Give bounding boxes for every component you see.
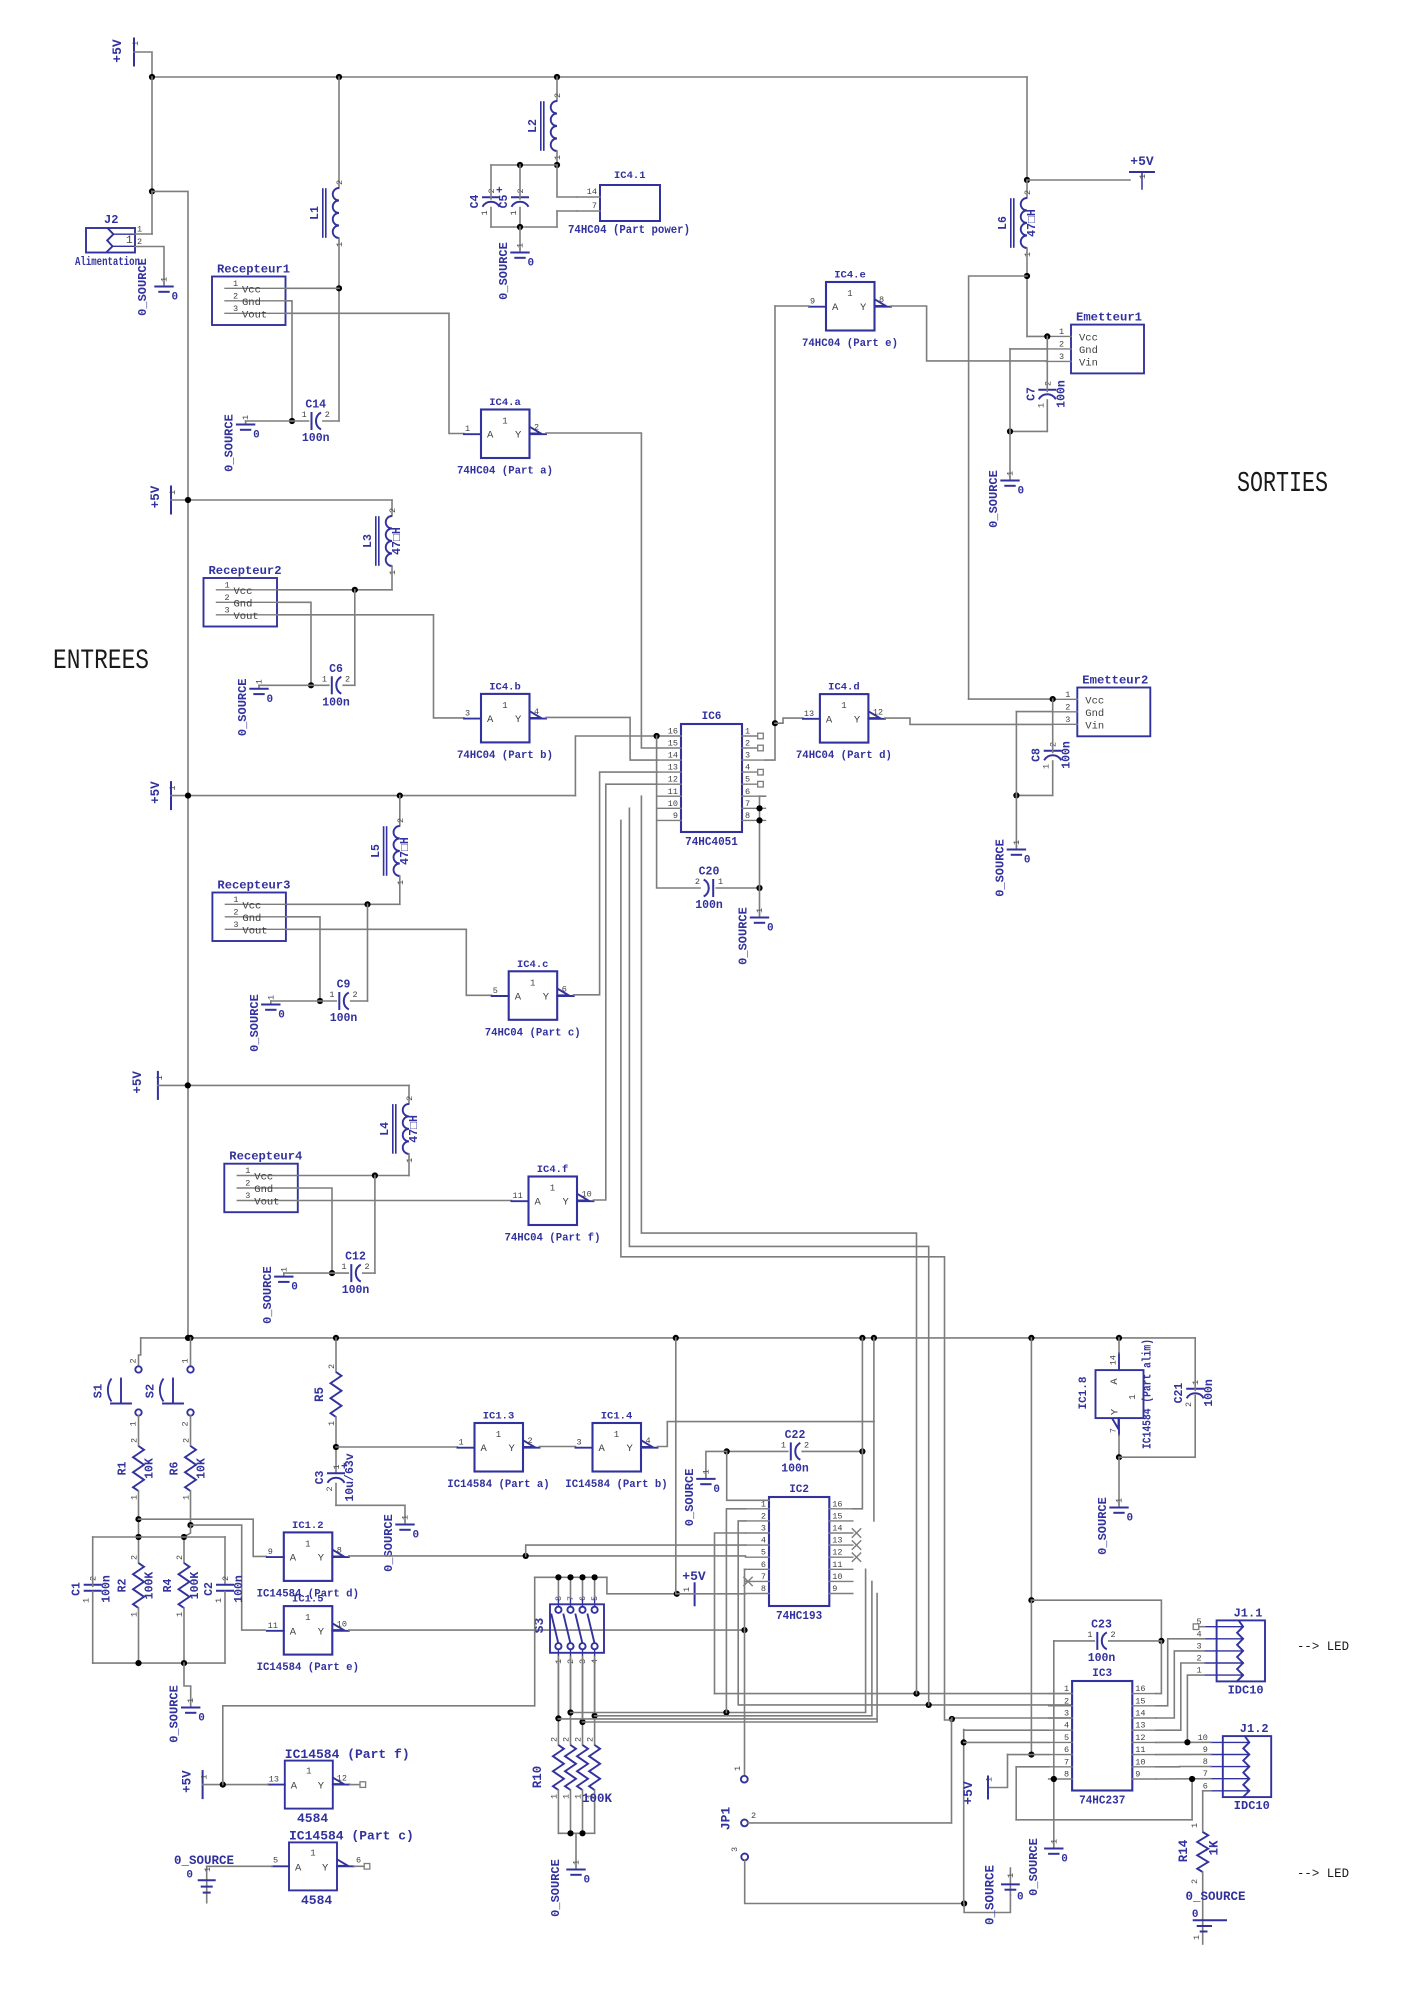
svg-text:0_SOURCE: 0_SOURCE xyxy=(236,678,250,736)
svg-text:3: 3 xyxy=(1059,352,1064,362)
junction rail/IC2p15 xyxy=(871,1335,877,1341)
svg-text:1: 1 xyxy=(405,1158,415,1163)
svg-text:13: 13 xyxy=(832,1536,842,1546)
junction S3 column xyxy=(592,1574,598,1580)
switch S2 xyxy=(187,1366,193,1372)
svg-text:IC1.3: IC1.3 xyxy=(483,1411,515,1423)
svg-text:13: 13 xyxy=(1135,1721,1145,1731)
svg-text:100n: 100n xyxy=(1061,741,1074,769)
wire Recepteur4 Gnd down xyxy=(298,1188,332,1273)
svg-text:1: 1 xyxy=(1087,1630,1092,1640)
wire Recepteur2 Gnd down xyxy=(277,602,311,685)
wire L4 to Recepteur4 Vcc xyxy=(298,1175,409,1177)
svg-text:12: 12 xyxy=(873,707,883,717)
svg-text:A: A xyxy=(826,714,833,726)
svg-text:1: 1 xyxy=(682,1587,692,1592)
ground 0_SOURCE (C4/C5) xyxy=(519,249,521,252)
wire J2 pin1 xyxy=(135,233,152,235)
svg-text:5: 5 xyxy=(761,1548,766,1558)
wire S3 col1 down xyxy=(557,1659,559,1718)
svg-text:11: 11 xyxy=(832,1560,842,1570)
svg-text:J1.2: J1.2 xyxy=(1240,1722,1269,1736)
svg-text:Alimentation: Alimentation xyxy=(75,255,140,269)
wire ground to Part c input xyxy=(207,1865,272,1867)
svg-text:1: 1 xyxy=(459,1438,464,1448)
wire IC3 pin7 down xyxy=(1015,1767,1017,1820)
svg-text:C7: C7 xyxy=(1025,387,1038,401)
svg-text:2: 2 xyxy=(353,990,358,1000)
svg-text:Vout: Vout xyxy=(254,1197,279,1209)
wire IC4.f output to IC6 pin12 xyxy=(594,784,658,1200)
svg-text:8: 8 xyxy=(337,1546,342,1556)
svg-text:0_SOURCE: 0_SOURCE xyxy=(1186,1890,1246,1904)
svg-text:8: 8 xyxy=(1203,1757,1208,1767)
junction C22/+5V xyxy=(859,1448,865,1454)
svg-text:2: 2 xyxy=(325,1486,335,1491)
svg-text:2: 2 xyxy=(1065,702,1070,712)
svg-text:0_SOURCE: 0_SOURCE xyxy=(987,470,1001,528)
wire C4 bottom xyxy=(490,208,492,228)
wire to ground (C8) xyxy=(1015,795,1017,846)
IC IC3 xyxy=(1072,1681,1132,1791)
capacitor C7 xyxy=(1039,389,1055,391)
svg-text:1: 1 xyxy=(496,1430,501,1440)
junction S3 column xyxy=(567,1574,573,1580)
wire C9 pin2 xyxy=(351,1000,368,1002)
svg-text:1: 1 xyxy=(1006,471,1016,476)
junction IC1.2 out branch xyxy=(523,1553,529,1559)
svg-text:2: 2 xyxy=(325,410,330,420)
svg-text:1: 1 xyxy=(509,210,519,215)
wire C1/C2 top net xyxy=(93,1536,225,1538)
junction R4/C net xyxy=(181,1534,187,1540)
svg-text:16: 16 xyxy=(668,727,678,737)
svg-text:L4: L4 xyxy=(379,1122,392,1136)
wire col1 bus xyxy=(558,1718,877,1720)
svg-text:0: 0 xyxy=(186,1870,193,1882)
svg-text:1: 1 xyxy=(1012,840,1022,845)
wire down to J2 xyxy=(151,77,153,191)
svg-text:1: 1 xyxy=(1192,1935,1202,1940)
junction L6/+5V xyxy=(1024,177,1030,183)
junction J1.2 pin7 net xyxy=(1189,1776,1195,1782)
ground 0_SOURCE (C14) xyxy=(245,421,247,424)
no-connect Part f output xyxy=(360,1782,366,1788)
svg-text:0_SOURCE: 0_SOURCE xyxy=(549,1859,563,1917)
svg-text:2: 2 xyxy=(130,1555,140,1560)
junction col2/IC2 pin1 xyxy=(723,1709,729,1715)
svg-text:1: 1 xyxy=(305,1613,310,1623)
wire J1.2 pin7 net down xyxy=(1191,1779,1193,1820)
svg-text:IC4.a: IC4.a xyxy=(489,397,521,409)
capacitor C12 xyxy=(350,1265,352,1281)
capacitor C9 xyxy=(338,993,340,1009)
junction C5 top xyxy=(517,162,523,168)
junction Vcc/C8 xyxy=(1050,696,1056,702)
svg-text:R4: R4 xyxy=(162,1579,175,1593)
receiver module Recepteur4 xyxy=(224,1164,297,1213)
svg-text:IC6: IC6 xyxy=(702,711,722,723)
wire C3 bottom xyxy=(335,1484,337,1506)
wire down to IC2 pin15 xyxy=(873,1422,875,1521)
svg-text:1: 1 xyxy=(847,289,852,299)
svg-text:1: 1 xyxy=(186,1698,196,1703)
wire C4 top xyxy=(490,165,492,199)
svg-text:1: 1 xyxy=(401,1515,411,1520)
wire C6 pin1 xyxy=(311,684,329,686)
wire C12 pin1 xyxy=(332,1272,348,1274)
ground 0_SOURCE (C7) xyxy=(1009,477,1011,480)
junction C7/Gnd1 xyxy=(1007,428,1013,434)
junction R5/C3/IC1.3 xyxy=(333,1444,339,1450)
wire +5V row3 to IC6 pin16 xyxy=(575,736,657,796)
wire IC4.1 pin7 xyxy=(557,210,577,212)
svg-text:R5: R5 xyxy=(313,1387,327,1402)
svg-text:SORTIES: SORTIES xyxy=(1237,467,1328,500)
wire R6 node to IC1.5 input xyxy=(191,1525,266,1630)
svg-text:1: 1 xyxy=(225,580,230,590)
svg-text:9: 9 xyxy=(832,1584,837,1594)
svg-text:0: 0 xyxy=(584,1875,591,1887)
wire L2 to C4/C5 node xyxy=(556,151,558,165)
svg-text:Recepteur3: Recepteur3 xyxy=(217,879,290,893)
wire IC1.5 output xyxy=(349,1629,745,1631)
wire to IC1.3 input xyxy=(336,1446,458,1448)
svg-text:4584: 4584 xyxy=(301,1893,332,1908)
svg-text:L3: L3 xyxy=(362,534,375,548)
wire +5V to Part f input xyxy=(203,1784,268,1786)
svg-text:1: 1 xyxy=(329,990,334,1000)
svg-text:47□H: 47□H xyxy=(399,837,412,865)
wire S3 bus down to +5V branch xyxy=(534,1577,536,1706)
svg-text:0_SOURCE: 0_SOURCE xyxy=(174,1854,234,1868)
svg-text:2: 2 xyxy=(233,291,238,301)
svg-text:Vin: Vin xyxy=(1085,720,1104,732)
svg-text:IC14584 (Part alim): IC14584 (Part alim) xyxy=(1142,1339,1155,1449)
svg-text:2: 2 xyxy=(345,674,350,684)
wire IC2 pin3 down xyxy=(715,1533,746,1694)
svg-text:--> LED: --> LED xyxy=(1297,1639,1349,1654)
capacitor C14 xyxy=(311,413,313,429)
svg-text:3: 3 xyxy=(1065,715,1070,725)
svg-text:3: 3 xyxy=(1064,1709,1069,1719)
inverter IC1.2 xyxy=(284,1532,333,1581)
wire S3 col3 down xyxy=(582,1659,584,1722)
wire top +5V rail xyxy=(152,76,1027,78)
svg-text:16: 16 xyxy=(1135,1684,1145,1694)
svg-text:1: 1 xyxy=(203,1867,213,1872)
svg-text:C14: C14 xyxy=(305,399,326,412)
wire rail to C22 xyxy=(861,1338,863,1452)
svg-text:11: 11 xyxy=(1135,1745,1145,1755)
wire C23 pin2 xyxy=(1109,1640,1162,1642)
wire L3 down xyxy=(391,566,393,590)
svg-text:13: 13 xyxy=(269,1775,279,1785)
svg-text:Gnd: Gnd xyxy=(254,1184,273,1196)
junction R1/IC1.2 input xyxy=(135,1516,141,1522)
ground 0_SOURCE (IC3 area) xyxy=(1009,1868,1011,1895)
wire +5V row4 xyxy=(158,1084,409,1086)
IC IC2 xyxy=(769,1497,829,1606)
svg-text:100n: 100n xyxy=(322,696,350,709)
resistor R6 xyxy=(185,1446,196,1491)
wire +5V node to IC2 pin8 xyxy=(677,1593,746,1595)
ground 0_SOURCE (C20) xyxy=(759,914,761,917)
inverter IC1.5 xyxy=(284,1606,333,1655)
wire S3 to R10 xyxy=(582,1659,584,1745)
svg-text:1: 1 xyxy=(168,785,178,790)
svg-text:IC1.8: IC1.8 xyxy=(1078,1376,1090,1409)
junction R10 xyxy=(579,1830,585,1836)
wire bottom +5V rail xyxy=(141,1337,1196,1339)
svg-text:5: 5 xyxy=(273,1855,278,1865)
svg-text:74HC04 (Part d): 74HC04 (Part d) xyxy=(796,750,892,762)
svg-text:A: A xyxy=(599,1443,606,1455)
wire IC4.c output to IC6 pin13 xyxy=(574,772,658,995)
svg-text:IDC10: IDC10 xyxy=(1228,1683,1264,1697)
junction rail/C22-IC2p16 xyxy=(859,1335,865,1341)
svg-text:+5V: +5V xyxy=(181,1770,195,1793)
capacitor C3 xyxy=(328,1472,344,1474)
wire IC6 pins6-8 gnd bus xyxy=(759,796,761,888)
inductor L4 xyxy=(403,1104,409,1154)
junction col4 xyxy=(592,1713,598,1719)
svg-text:0_SOURCE: 0_SOURCE xyxy=(737,907,751,965)
wire to IC3 pin4 xyxy=(964,1729,1049,1731)
svg-text:100n: 100n xyxy=(330,1012,358,1025)
junction C20/IC6 gnd xyxy=(756,885,762,891)
wire JP1 pin3 bus xyxy=(745,1860,964,1903)
wire Recepteur1 Vcc xyxy=(286,287,340,289)
gate IC1.8 IC14584 (Part alim) xyxy=(1096,1370,1144,1418)
svg-text:100K: 100K xyxy=(189,1572,202,1600)
wire rail to IC1.4 output net xyxy=(873,1338,875,1422)
svg-text:1: 1 xyxy=(530,978,535,988)
svg-text:Y: Y xyxy=(854,714,861,726)
+5V supply (Part f) xyxy=(202,1771,204,1798)
IC4.1 74HC04 power part xyxy=(600,185,660,221)
+5V supply (top right) xyxy=(1130,171,1154,173)
wire to L5 xyxy=(399,796,401,826)
svg-text:3: 3 xyxy=(233,920,238,930)
connector J1.2 xyxy=(1223,1736,1271,1797)
wire rail to L2 xyxy=(556,77,558,101)
svg-text:100n: 100n xyxy=(695,899,723,912)
svg-text:1: 1 xyxy=(502,701,507,711)
wire C6 pin2 xyxy=(343,684,355,686)
DIP switch S3 xyxy=(550,1604,604,1653)
svg-text:1: 1 xyxy=(1042,764,1052,769)
ground 0_SOURCE (C22) xyxy=(705,1475,707,1478)
svg-text:100n: 100n xyxy=(1088,1652,1116,1665)
wire J1.2 pin6 to R14 xyxy=(1203,1790,1211,1792)
wire IC6 pin3 up to IC4.e xyxy=(766,306,776,760)
wire Gnd down xyxy=(1009,349,1011,432)
svg-text:1: 1 xyxy=(335,242,345,247)
wire to IC3 pin5 xyxy=(964,1741,1049,1743)
svg-text:IC4.1: IC4.1 xyxy=(614,170,646,182)
junction S3 column xyxy=(579,1574,585,1580)
wire to IC3 pin3 xyxy=(952,1717,1072,1719)
svg-text:2: 2 xyxy=(574,1737,584,1742)
wire IC3 pin10 to J1.2 pin8 xyxy=(1156,1766,1211,1768)
svg-text:2: 2 xyxy=(1111,1630,1116,1640)
svg-text:A: A xyxy=(487,430,494,442)
svg-text:0: 0 xyxy=(1024,855,1031,867)
wire R10 bus to ground xyxy=(575,1833,577,1866)
junction IC6 pin3 / IC4.d xyxy=(772,720,778,726)
wire C23 pin1 xyxy=(1054,1640,1095,1642)
svg-text:0: 0 xyxy=(1127,1513,1134,1525)
junction R4 bottom / ground xyxy=(181,1660,187,1666)
svg-text:J1.1: J1.1 xyxy=(1234,1606,1263,1620)
svg-text:1: 1 xyxy=(701,1469,711,1474)
no-connect X IC2 pin7 xyxy=(744,1577,752,1585)
svg-text:Y: Y xyxy=(515,430,522,442)
wire C14 pin1 xyxy=(292,420,309,422)
svg-text:0: 0 xyxy=(1017,1892,1024,1904)
wire Recepteur4 Vout to IC4.f xyxy=(298,1200,512,1202)
svg-text:+5V: +5V xyxy=(149,781,163,804)
junction col2 xyxy=(567,1709,573,1715)
ground 0_SOURCE (Part c, inline) xyxy=(206,1866,208,1902)
svg-text:74HC193: 74HC193 xyxy=(776,1610,822,1623)
junction rail/main +5V column xyxy=(185,1335,191,1341)
capacitor C2 xyxy=(217,1584,233,1586)
capacitor C20 xyxy=(712,880,714,896)
wire Recepteur3 Gnd down xyxy=(286,917,320,1001)
svg-text:2: 2 xyxy=(1059,339,1064,349)
wire C5 top xyxy=(519,165,521,199)
svg-text:Vcc: Vcc xyxy=(242,284,261,296)
svg-text:0_SOURCE: 0_SOURCE xyxy=(984,1865,998,1925)
wire to IC4.d input xyxy=(775,718,803,723)
wire S3 col4 down xyxy=(594,1659,596,1716)
wire IC2 pin2 to IC3 pin2 xyxy=(738,1521,1072,1705)
svg-text:Y: Y xyxy=(318,1626,325,1638)
wire IC1.2 output to IC2 pin5 xyxy=(349,1555,746,1557)
wire col2 to IC2 pin11 xyxy=(571,1569,866,1712)
wire S3 to R10 xyxy=(570,1659,572,1745)
svg-text:2: 2 xyxy=(751,1811,756,1821)
svg-text:1: 1 xyxy=(516,243,526,248)
junction Gnd1/C14/ground xyxy=(289,418,295,424)
svg-text:IC3: IC3 xyxy=(1092,1668,1112,1680)
svg-text:100n: 100n xyxy=(1203,1379,1216,1407)
svg-text:+: + xyxy=(341,1462,348,1474)
svg-text:2: 2 xyxy=(1023,190,1033,195)
wire C14 pin2 xyxy=(323,420,339,422)
svg-text:8: 8 xyxy=(1064,1770,1069,1780)
wire IC4.e output to Emetteur1 Vin xyxy=(891,306,1046,361)
junction C5 bottom / ground xyxy=(517,224,523,230)
inverter IC4.f xyxy=(529,1177,578,1226)
svg-text:1: 1 xyxy=(322,674,327,684)
svg-text:C6: C6 xyxy=(329,663,343,676)
svg-text:C22: C22 xyxy=(785,1429,806,1442)
wire IC1.4 output toward IC2 pin15 xyxy=(658,1422,874,1447)
svg-text:0_SOURCE: 0_SOURCE xyxy=(993,839,1007,897)
wire C22 gnd corner xyxy=(727,1451,769,1500)
svg-text:2: 2 xyxy=(130,1438,140,1443)
emitter module Emetteur2 xyxy=(1077,688,1150,737)
no-connect IC6 pin4 xyxy=(758,769,764,775)
svg-text:47□H: 47□H xyxy=(1026,209,1039,237)
svg-text:2: 2 xyxy=(745,739,750,749)
wire L5 to Recepteur3 Vcc xyxy=(286,903,400,905)
svg-text:9: 9 xyxy=(1203,1745,1208,1755)
wire S3 top bus xyxy=(535,1576,607,1578)
svg-text:14: 14 xyxy=(1135,1709,1145,1719)
svg-text:74HC4051: 74HC4051 xyxy=(685,836,738,849)
wire S3 to R10 xyxy=(557,1659,559,1745)
wire rail down to L6 row xyxy=(1026,77,1028,180)
svg-text:+5V: +5V xyxy=(961,1781,976,1805)
svg-text:6: 6 xyxy=(1203,1781,1208,1791)
svg-text:6: 6 xyxy=(562,985,567,995)
svg-text:74HC237: 74HC237 xyxy=(1079,1795,1125,1808)
svg-text:9: 9 xyxy=(1135,1770,1140,1780)
svg-text:Y: Y xyxy=(318,1781,325,1793)
svg-text:Vin: Vin xyxy=(1079,357,1098,369)
svg-text:--> LED: --> LED xyxy=(1297,1866,1349,1881)
svg-text:C8: C8 xyxy=(1031,748,1044,762)
ground 0_SOURCE (IC1.8) xyxy=(1118,1504,1120,1507)
svg-text:2: 2 xyxy=(487,188,497,193)
svg-text:1: 1 xyxy=(332,1464,342,1469)
wire C21 to IC1.8 output xyxy=(1119,1396,1195,1458)
svg-text:Vcc: Vcc xyxy=(242,900,261,912)
svg-text:Gnd: Gnd xyxy=(1079,345,1098,357)
svg-text:JP1: JP1 xyxy=(719,1807,734,1831)
wire IC2 pin6 / IC1.5 / JP1.1 vertical xyxy=(744,1569,746,1776)
JP1 pin 3 xyxy=(741,1854,748,1861)
svg-text:L1: L1 xyxy=(309,206,322,220)
svg-text:74HC04 (Part f): 74HC04 (Part f) xyxy=(505,1233,601,1245)
svg-text:4: 4 xyxy=(1064,1721,1069,1731)
wire R1 node to IC1.2 input xyxy=(139,1519,267,1556)
svg-text:8: 8 xyxy=(879,295,884,305)
svg-text:1: 1 xyxy=(1036,403,1046,408)
wire col4 to IC2 pin10 xyxy=(595,1581,872,1715)
wire Emetteur1 Gnd xyxy=(1010,348,1046,350)
svg-text:C1: C1 xyxy=(71,1582,84,1596)
wire IC6 pin10 to IC3 pin2 net xyxy=(629,808,928,1705)
svg-text:2: 2 xyxy=(327,1364,337,1369)
junction Vcc/C7 xyxy=(1044,333,1050,339)
svg-text:5: 5 xyxy=(745,775,750,785)
wire IC3 pin9 to J1.2 pin7 xyxy=(1156,1778,1211,1780)
svg-text:J2: J2 xyxy=(104,213,118,227)
wire R6 down xyxy=(190,1491,192,1525)
svg-text:C2: C2 xyxy=(203,1582,216,1596)
wire IC3 pin13 to J1.1 pin2 xyxy=(1156,1663,1205,1730)
svg-text:1: 1 xyxy=(341,1262,346,1272)
wire IC3 pin7 bus xyxy=(1016,1819,1192,1821)
svg-text:1: 1 xyxy=(1196,1666,1201,1676)
wire Recepteur1 Gnd down xyxy=(286,301,293,421)
wire to ground (C14) xyxy=(246,420,292,422)
wire C20 pin1 to gnd node xyxy=(716,887,759,889)
svg-text:1: 1 xyxy=(126,235,133,247)
wire IC3 pin11 to J1.2 pin9 xyxy=(1156,1753,1211,1755)
svg-text:0: 0 xyxy=(413,1530,420,1542)
capacitor C23 xyxy=(1096,1633,1098,1649)
svg-text:1: 1 xyxy=(733,1766,743,1771)
svg-text:0_SOURCE: 0_SOURCE xyxy=(1027,1838,1041,1896)
svg-text:Vout: Vout xyxy=(242,925,267,937)
svg-text:0: 0 xyxy=(713,1484,720,1496)
